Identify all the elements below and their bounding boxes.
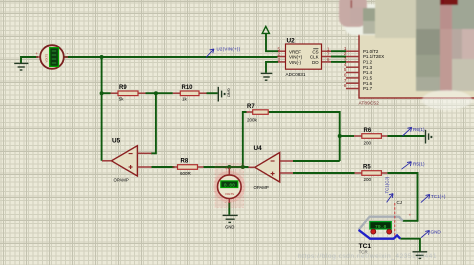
svg-text:VIN(+): VIN(+)	[289, 55, 303, 60]
svg-text:R6(1): R6(1)	[413, 127, 425, 132]
svg-text:DO: DO	[312, 60, 319, 65]
svg-text:1: 1	[344, 46, 347, 51]
svg-text:R8: R8	[181, 159, 189, 165]
svg-text:200: 200	[364, 177, 372, 182]
svg-text:VOLTS: VOLTS	[225, 192, 234, 196]
svg-text:+: +	[409, 213, 412, 218]
svg-text:4: 4	[344, 62, 347, 67]
svg-text:P1.5: P1.5	[363, 76, 373, 81]
svg-text:VREF: VREF	[289, 49, 301, 54]
svg-text:6: 6	[344, 73, 347, 78]
svg-text:VOLTS: VOLTS	[44, 54, 48, 63]
svg-text:VIN(-): VIN(-)	[289, 60, 301, 65]
svg-text:0.00: 0.00	[224, 183, 235, 189]
svg-text:R6: R6	[364, 128, 372, 134]
svg-text:200k: 200k	[247, 118, 258, 123]
svg-text:P1.4: P1.4	[363, 70, 373, 75]
svg-text:P1.3: P1.3	[363, 65, 373, 70]
svg-text:R5: R5	[363, 165, 371, 171]
svg-text:70.0: 70.0	[375, 224, 387, 230]
svg-text:R5(1): R5(1)	[413, 162, 425, 167]
svg-text:5: 5	[344, 67, 347, 72]
svg-text:-: -	[67, 51, 69, 56]
svg-text:200: 200	[364, 141, 372, 146]
svg-text:600R: 600R	[180, 171, 192, 176]
svg-text:+: +	[35, 51, 38, 56]
svg-text:U2: U2	[287, 38, 296, 45]
svg-text:OPAMP: OPAMP	[254, 185, 269, 190]
svg-text:5k: 5k	[119, 97, 125, 102]
svg-text:2: 2	[344, 51, 347, 56]
svg-text:P1.0/T2: P1.0/T2	[363, 49, 379, 54]
svg-text:8: 8	[344, 83, 347, 88]
svg-text:U2(VIN(+)): U2(VIN(+))	[217, 46, 241, 51]
svg-text:TC1(CJ): TC1(CJ)	[384, 176, 389, 193]
svg-text:CLK: CLK	[310, 55, 319, 60]
svg-text:CJ: CJ	[397, 200, 403, 205]
svg-text:https://blog.csdn.net/weixin_4: https://blog.csdn.net/weixin_4235125441	[298, 253, 437, 260]
svg-text:7: 7	[344, 78, 347, 83]
svg-text:3: 3	[344, 57, 347, 62]
svg-text:P1.6: P1.6	[363, 81, 373, 86]
svg-text:GND: GND	[431, 230, 442, 235]
svg-text:CS: CS	[312, 49, 318, 54]
svg-text:P1.7: P1.7	[363, 86, 373, 91]
svg-text:GND: GND	[225, 225, 234, 230]
svg-text:U4: U4	[254, 145, 263, 152]
svg-text:AT89C52: AT89C52	[359, 101, 380, 107]
svg-text:R7: R7	[247, 104, 255, 110]
svg-text:R10: R10	[182, 85, 194, 91]
svg-text:P1.2: P1.2	[363, 60, 373, 65]
svg-text:OPAMP: OPAMP	[114, 178, 129, 183]
svg-text:P1.1/T2EX: P1.1/T2EX	[363, 54, 384, 59]
svg-text:U5: U5	[112, 138, 121, 145]
svg-text:1k: 1k	[182, 97, 188, 102]
svg-text:R9: R9	[119, 85, 127, 91]
svg-text:ADC0831: ADC0831	[286, 72, 306, 77]
svg-text:TC1(+): TC1(+)	[431, 194, 446, 199]
svg-text:GND: GND	[226, 88, 231, 97]
svg-text:+: +	[225, 166, 228, 171]
